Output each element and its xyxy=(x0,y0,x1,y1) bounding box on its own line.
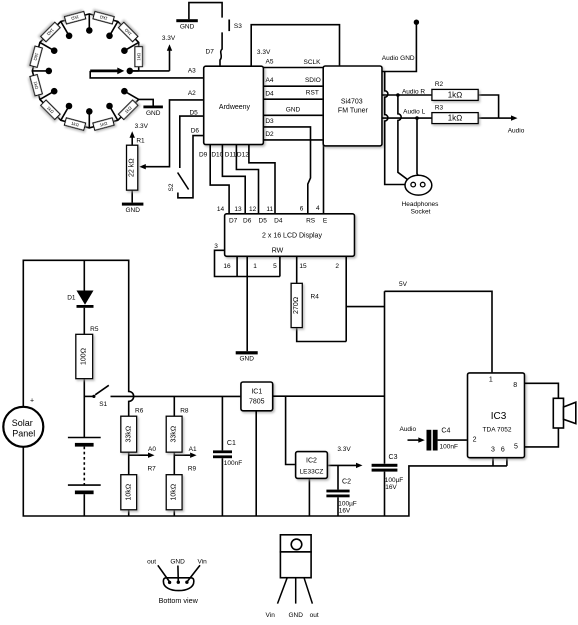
svg-text:GND: GND xyxy=(288,612,303,619)
svg-text:R9: R9 xyxy=(188,466,197,473)
svg-text:D2: D2 xyxy=(265,131,274,138)
svg-text:+: + xyxy=(30,398,34,405)
svg-text:A3: A3 xyxy=(188,68,196,75)
svg-text:5: 5 xyxy=(273,263,277,270)
svg-text:A2: A2 xyxy=(188,90,196,97)
svg-text:Audio L: Audio L xyxy=(403,108,425,115)
svg-text:LE33CZ: LE33CZ xyxy=(300,468,324,475)
svg-text:R7: R7 xyxy=(147,466,156,473)
svg-text:D9: D9 xyxy=(199,151,208,158)
svg-text:A5: A5 xyxy=(266,58,274,65)
svg-text:1: 1 xyxy=(489,376,493,383)
svg-text:100Ω: 100Ω xyxy=(81,348,88,365)
svg-text:out: out xyxy=(310,612,319,619)
svg-text:R1: R1 xyxy=(136,138,145,145)
svg-text:GND: GND xyxy=(180,24,195,31)
svg-text:5V: 5V xyxy=(399,281,408,288)
svg-text:8: 8 xyxy=(513,382,517,389)
svg-text:Audio: Audio xyxy=(508,127,525,134)
svg-text:C4: C4 xyxy=(441,427,450,434)
svg-text:Vin: Vin xyxy=(197,559,207,566)
svg-text:TDA 7052: TDA 7052 xyxy=(483,427,512,434)
svg-text:D1: D1 xyxy=(67,294,76,301)
svg-text:A4: A4 xyxy=(266,77,274,84)
svg-text:3.3V: 3.3V xyxy=(257,49,271,56)
svg-text:S1: S1 xyxy=(99,401,107,408)
svg-text:out: out xyxy=(147,559,156,566)
svg-text:2 x 16 LCD Display: 2 x 16 LCD Display xyxy=(262,232,322,239)
svg-text:D12: D12 xyxy=(237,151,249,158)
svg-text:6: 6 xyxy=(300,206,304,213)
svg-text:D4: D4 xyxy=(274,217,283,224)
svg-text:D5: D5 xyxy=(189,109,198,116)
svg-text:C3: C3 xyxy=(389,454,398,461)
svg-text:2: 2 xyxy=(335,263,339,270)
svg-text:3.3V: 3.3V xyxy=(135,123,149,130)
svg-text:1: 1 xyxy=(253,263,257,270)
svg-text:S3: S3 xyxy=(234,23,242,30)
svg-text:R6: R6 xyxy=(135,408,144,415)
svg-text:3: 3 xyxy=(491,446,495,453)
svg-text:3.3V: 3.3V xyxy=(337,446,351,453)
svg-text:Audio R: Audio R xyxy=(402,88,425,95)
svg-text:RST: RST xyxy=(306,89,319,96)
svg-text:100µF: 100µF xyxy=(338,500,357,507)
svg-text:R4: R4 xyxy=(311,294,320,301)
svg-text:16: 16 xyxy=(223,263,231,270)
svg-text:Solar: Solar xyxy=(12,418,33,428)
svg-text:IC2: IC2 xyxy=(306,457,317,464)
svg-text:FM Tuner: FM Tuner xyxy=(338,107,369,114)
svg-text:100nF: 100nF xyxy=(440,444,458,451)
svg-text:10kΩ: 10kΩ xyxy=(125,484,132,501)
svg-text:R2: R2 xyxy=(435,81,444,88)
svg-text:5: 5 xyxy=(514,443,518,450)
svg-text:D6: D6 xyxy=(191,127,200,134)
svg-text:IC1: IC1 xyxy=(251,388,262,395)
svg-text:R8: R8 xyxy=(180,408,189,415)
svg-text:3: 3 xyxy=(214,243,218,250)
svg-text:4: 4 xyxy=(316,205,320,212)
svg-text:10kΩ: 10kΩ xyxy=(171,484,178,501)
svg-text:Audio GND: Audio GND xyxy=(382,55,415,62)
svg-text:16V: 16V xyxy=(339,508,351,515)
svg-text:D4: D4 xyxy=(265,91,274,98)
svg-text:A1: A1 xyxy=(189,446,197,453)
svg-text:IC3: IC3 xyxy=(491,411,507,422)
svg-text:A0: A0 xyxy=(148,446,156,453)
svg-text:100nF: 100nF xyxy=(224,460,242,467)
svg-text:33kΩ: 33kΩ xyxy=(171,426,178,443)
svg-text:7805: 7805 xyxy=(249,398,265,405)
svg-text:RW: RW xyxy=(272,247,284,254)
svg-text:Ardweeny: Ardweeny xyxy=(219,104,251,111)
svg-text:3.3V: 3.3V xyxy=(162,35,176,42)
svg-text:SCLK: SCLK xyxy=(304,59,322,66)
svg-text:D5: D5 xyxy=(259,217,268,224)
svg-text:Si4703: Si4703 xyxy=(341,99,363,106)
svg-text:D11: D11 xyxy=(225,151,237,158)
svg-text:GND: GND xyxy=(170,559,185,566)
svg-text:D6: D6 xyxy=(243,217,252,224)
svg-text:S2: S2 xyxy=(168,183,175,191)
svg-text:GND: GND xyxy=(286,106,301,113)
svg-text:D3: D3 xyxy=(265,118,274,125)
svg-text:11: 11 xyxy=(266,206,273,213)
svg-text:C1: C1 xyxy=(227,440,236,447)
svg-text:1kΩ: 1kΩ xyxy=(448,114,463,123)
svg-text:Vin: Vin xyxy=(266,612,276,619)
svg-text:D7: D7 xyxy=(229,217,238,224)
svg-text:GND: GND xyxy=(125,207,140,214)
svg-text:33kΩ: 33kΩ xyxy=(125,426,132,443)
svg-text:D7: D7 xyxy=(206,48,215,55)
svg-text:R3: R3 xyxy=(435,105,444,112)
svg-text:R5: R5 xyxy=(90,326,99,333)
svg-text:15: 15 xyxy=(299,263,307,270)
svg-text:2: 2 xyxy=(473,436,477,443)
svg-text:1kΩ: 1kΩ xyxy=(448,90,463,99)
svg-text:Socket: Socket xyxy=(411,208,431,215)
svg-text:Audio: Audio xyxy=(399,426,416,433)
svg-text:16V: 16V xyxy=(385,484,397,491)
svg-text:GND: GND xyxy=(239,356,254,363)
svg-text:270Ω: 270Ω xyxy=(293,297,300,314)
svg-text:100µF: 100µF xyxy=(385,477,404,484)
svg-text:E: E xyxy=(323,217,328,224)
svg-text:D10: D10 xyxy=(211,151,223,158)
svg-text:RS: RS xyxy=(306,217,316,224)
svg-text:6: 6 xyxy=(501,446,505,453)
svg-text:13: 13 xyxy=(234,206,242,213)
svg-text:GND: GND xyxy=(146,110,161,117)
svg-text:22 kΩ: 22 kΩ xyxy=(129,158,136,177)
svg-text:14: 14 xyxy=(217,206,225,213)
svg-text:Bottom view: Bottom view xyxy=(159,596,199,605)
svg-text:Headphones: Headphones xyxy=(402,201,440,208)
svg-text:Panel: Panel xyxy=(12,428,35,438)
svg-text:C2: C2 xyxy=(342,478,351,485)
svg-text:SDIO: SDIO xyxy=(305,77,321,84)
svg-text:1kΩ: 1kΩ xyxy=(136,53,141,61)
svg-text:12: 12 xyxy=(249,206,257,213)
